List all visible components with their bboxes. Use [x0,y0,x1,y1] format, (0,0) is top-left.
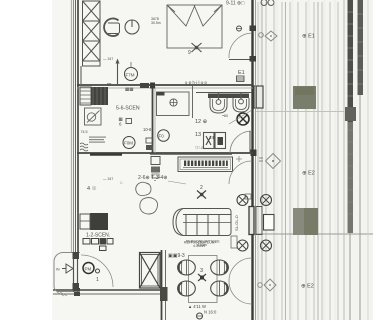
door marker circle [237,26,242,31]
diamond vent middle [259,154,281,169]
RIGHT STRIP [344,0,368,320]
deck door arc (kitchen) [229,161,252,184]
PM circle [83,263,94,274]
svg-text:⊕ E2: ⊕ E2 [301,284,314,290]
SHOWER [143,92,189,150]
svg-text:⎯60: ⎯60 [222,114,228,118]
edge line [343,0,345,320]
side table circle [125,20,139,34]
DECK [253,0,373,320]
svg-text:1-2-SCEN.: 1-2-SCEN. [86,233,110,239]
svg-text:N 16:0: N 16:0 [204,310,217,315]
bedroom door leaf [229,59,252,61]
door arrow symbol [62,264,73,273]
label E2 bottom [301,284,314,290]
svg-text:2-6⊕ T-3-4⊕: 2-6⊕ T-3-4⊕ [138,175,168,181]
lower vertical wall (dining/kitchen) [161,250,163,320]
bed [167,5,222,48]
dark hatched bar 1 [348,0,354,122]
drain [170,99,177,106]
svg-text:PM: PM [85,267,92,272]
svg-text:10-6: 10-6 [143,127,152,132]
planter square E2 [293,208,318,235]
diamond vent top [259,31,277,41]
darker plank accents [262,2,318,320]
ENTRY [54,252,113,292]
squiggle [80,143,88,151]
chair top-left [178,260,196,275]
jamb blob wall B/right wall [251,150,257,157]
stair / hatched block [80,87,91,105]
small boxes near wall [245,194,251,199]
dark hatched bar 2 [358,0,364,95]
svg-text:□□ △: □□ △ [195,146,205,150]
svg-text:⊕ E1: ⊕ E1 [302,34,315,40]
F7M control circle [125,68,138,81]
washer box [85,108,102,125]
right house wall [251,0,253,320]
BEDROOM [81,1,256,92]
svg-text:13: 13 [195,132,201,138]
svg-text:12 ⊕: 12 ⊕ [195,119,208,125]
pantry X box [140,253,161,289]
svg-text:1: 1 [96,277,99,283]
entry alcove outline [54,253,80,292]
shower pan [157,92,190,116]
right edge: sconce circles (living side) [237,195,248,252]
right edge: sconce circles (deck side) [261,195,272,252]
kitchen island counter [178,157,233,172]
svg-text:3: 3 [200,268,203,274]
door jambs [73,252,75,292]
svg-text:F0M: F0M [124,141,133,146]
junction blob on wall A [140,83,149,88]
svg-text:F7M: F7M [126,73,135,78]
plant blob 1 [136,182,151,195]
leader from label [168,181,186,184]
deck joint at column [256,111,344,113]
slider jamb blocks [250,26,257,32]
column on deck at bathroom [254,86,263,108]
F0M circle [158,130,170,142]
deck plank lines [258,2,338,320]
svg-text:IN: IN [56,268,60,272]
shower/bath divider stub [192,86,194,118]
plus mark [236,156,242,162]
entry door swing [81,255,113,287]
svg-text:SL-GL-D: SL-GL-D [234,215,239,231]
leader to door [229,110,252,124]
closet strip with X cells [83,1,101,66]
sink 2 [233,93,249,112]
svg-text:F0: F0 [159,134,165,139]
small dot and 1 [96,269,100,273]
sofa [173,209,231,236]
control boxes row [83,239,113,245]
faint outer line [367,0,369,320]
plant blob 2 [140,198,158,215]
deck paper streaks [256,0,342,320]
label E1 [302,34,315,40]
WC boxes [204,133,215,149]
svg-text:u·p·h·i·l·u·p: u·p·h·i·l·u·p [185,80,208,85]
wall stub below closet [80,66,82,85]
svg-text:▲ 4'11 W: ▲ 4'11 W [188,304,206,309]
wall cabinets left of counter [151,157,160,165]
left outer wall [71,0,78,252]
slider door elevation [249,207,254,235]
svg-text:4 ☉: 4 ☉ [87,185,97,192]
svg-text:▣▣9-3: ▣▣9-3 [168,253,185,259]
svg-text:4.50kW: 4.50kW [193,244,206,248]
LIVING [80,146,274,252]
chair bottom-left [178,281,196,296]
deck door marker top [241,245,243,247]
utility/shower divider wall [152,85,154,153]
BATHROOM [195,93,252,154]
svg-text:9-11 ⊕□: 9-11 ⊕□ [226,1,244,7]
svg-text:14: 14 [209,135,215,140]
sink 1 [210,93,227,113]
svg-text:⊕ E2: ⊕ E2 [302,171,315,177]
dining table [189,256,218,303]
diamond vent bottom [258,279,276,291]
svg-text:— 247: — 247 [103,57,113,61]
dark blob [345,107,356,121]
svg-text:9: 9 [188,50,191,56]
armchair [104,18,119,36]
whirlpool W circle [237,113,249,125]
F0M circle [123,137,135,149]
ceiling fan 9 [192,43,202,52]
media cabinet dark [90,213,108,230]
label E2 mid [302,171,315,177]
burner dashes [184,161,228,167]
svg-text:E1: E1 [238,70,245,76]
vanity counter [196,92,252,94]
svg-text:— 247: — 247 [103,177,113,181]
chair top-right [211,260,229,275]
mid wall B (bath/living divider) [77,152,253,154]
svg-text:30.5m: 30.5m [151,21,161,25]
hatch block on lower wall [160,287,168,301]
svg-text:5-6-SCEN: 5-6-SCEN [116,106,140,112]
svg-text:▩▩: ▩▩ [125,87,134,92]
mid wall A (bedroom/bath divider) [77,84,253,86]
tiny note block [89,137,106,143]
chair bottom-right [211,281,229,296]
svg-text:⎯: ⎯ [154,178,156,183]
UTILITY [80,87,140,151]
pillows [167,5,195,26]
bottom wall jamb [74,288,80,296]
WALLS [53,0,257,320]
tick marks below wall [57,292,67,296]
french door arcs to deck [229,258,252,281]
top small circles [261,0,274,6]
svg-text:2: 2 [200,185,203,191]
leader arrow to wall A [117,61,119,85]
svg-text:74.5: 74.5 [81,130,88,134]
planter square E1 [293,86,316,109]
bottom wall [53,289,160,291]
bedroom door swing arc [229,33,252,58]
DINING [140,241,253,320]
door arc bottom right of bath [230,131,252,153]
deck horizontal joint line [253,233,373,235]
wall items left [146,138,153,143]
